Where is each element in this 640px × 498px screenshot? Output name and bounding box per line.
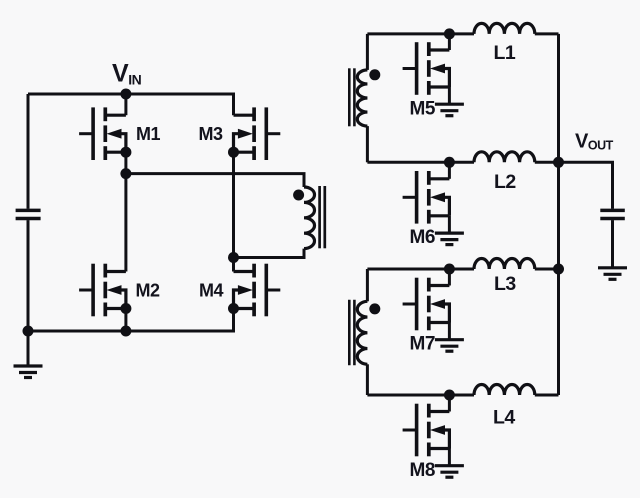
node M3 source junction dot [228, 147, 239, 158]
wire T2 top to L3 [367, 268, 474, 271]
inductor L2 [474, 152, 535, 163]
wire left input column upper [27, 94, 30, 209]
wire top rail VIN to M3 drain [28, 94, 234, 115]
svg-text:L3: L3 [494, 273, 516, 295]
wire leg B M3 source to M4 drain [232, 152, 235, 271]
transistor M1 [79, 107, 126, 160]
wire M8 drain [448, 395, 451, 412]
transformer T2 phase dot [369, 303, 380, 314]
transformer T2 core [349, 300, 354, 366]
wire bottom ground rail to M4 source [28, 309, 234, 332]
transformer T primary winding [304, 187, 315, 249]
wire T2 bottom lead [366, 364, 369, 395]
transistor M2 [79, 264, 126, 317]
svg-text:M4: M4 [199, 281, 223, 301]
capacitor C input plate bottom [16, 217, 41, 221]
svg-text:M5: M5 [410, 98, 436, 119]
node M2 ground rail junction dot [120, 326, 131, 337]
wire T1 bottom lead [366, 126, 369, 162]
transformer T2 secondary winding [357, 301, 367, 364]
wire T1 secondary top to L1 [367, 32, 474, 35]
wire L3 right to rail [535, 268, 559, 271]
ground M6 [435, 233, 464, 245]
capacitor C output plate bottom [600, 217, 625, 221]
transistor M3 [234, 107, 281, 160]
node M6 drain junction dot [444, 157, 455, 168]
node VIN junction dot [120, 89, 131, 100]
wire node B to primary bottom [234, 249, 305, 258]
wire M6 source to ground [448, 216, 451, 233]
transistor M5 [403, 42, 450, 95]
node VOUT junction dot [553, 157, 564, 168]
wire L2 right to rail [535, 161, 559, 164]
wire node A to primary top [126, 174, 304, 187]
node A junction dot [120, 168, 131, 179]
node M5 drain junction dot [444, 28, 455, 39]
transistor M7 [403, 278, 450, 331]
wire M6 drain [448, 162, 451, 179]
svg-text:M6: M6 [410, 227, 435, 248]
transformer T1 secondary winding [357, 70, 367, 126]
wire VOUT to output cap [559, 162, 613, 208]
wire T2 top lead [366, 269, 369, 301]
wire M1 drain [124, 94, 127, 115]
node M2 source junction dot [120, 303, 131, 314]
node B junction dot [228, 252, 239, 263]
transistor M4 [234, 264, 281, 317]
wire T1 top lead [366, 34, 369, 70]
capacitor C input plate top [16, 209, 41, 213]
wire T1 bottom to L2 [367, 161, 474, 164]
wire M8 source to ground [448, 449, 451, 466]
node input cap ground junction dot [23, 326, 34, 337]
inductor L4 [474, 384, 535, 395]
svg-text:M7: M7 [410, 334, 435, 355]
wire L1 right to rail corner [535, 32, 559, 35]
wire T2 bottom to L4 [367, 394, 474, 397]
svg-text:L1: L1 [494, 42, 516, 64]
wire output rail vertical [557, 34, 560, 395]
ground output cap [598, 268, 627, 280]
svg-text:M1: M1 [136, 124, 160, 144]
wire M5 source to ground [448, 87, 451, 104]
wire left input column lower [27, 220, 30, 331]
inductor L1 [474, 23, 535, 34]
ground M7 [435, 340, 464, 352]
ground input [14, 366, 43, 378]
svg-text:M2: M2 [136, 281, 160, 301]
node M1 source junction dot [120, 147, 131, 158]
svg-text:M3: M3 [199, 124, 223, 144]
inductor L3 [474, 259, 535, 270]
wire M7 source to ground [448, 323, 451, 340]
transformer T1 core [349, 68, 354, 126]
svg-text:L4: L4 [493, 407, 515, 429]
node L3 rail junction dot [553, 264, 564, 275]
wire leg A M1 source to M2 drain [124, 152, 127, 271]
transformer T primary core [320, 186, 325, 248]
transistor M6 [403, 171, 450, 224]
capacitor C output plate top [600, 209, 625, 213]
transformer T1 phase dot [369, 69, 380, 80]
wire M7 drain [448, 269, 451, 286]
node M8 drain junction dot [444, 390, 455, 401]
transistor M8 [403, 404, 450, 457]
wire L4 right to rail corner [535, 394, 559, 397]
node M7 drain junction dot [444, 264, 455, 275]
wire M5 drain [448, 34, 451, 50]
transformer T primary phase dot [293, 190, 304, 201]
wire M2 source to ground rail [124, 309, 127, 332]
svg-text:L2: L2 [494, 171, 516, 193]
wire output cap to ground [611, 220, 614, 268]
svg-text:M8: M8 [410, 460, 435, 481]
ground M8 [435, 466, 464, 478]
node M4 source junction dot [228, 303, 239, 314]
wire ground stem left [27, 331, 30, 366]
ground M5 [435, 104, 464, 116]
